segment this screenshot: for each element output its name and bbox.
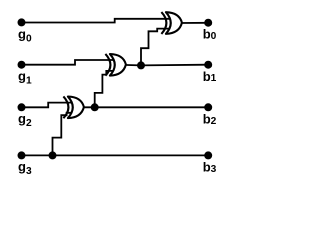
wire U2 output to b1 [125, 64, 209, 67]
terminal dot b3 [204, 151, 212, 159]
svg-text:g1: g1 [18, 69, 32, 87]
wire staircase from node g3 to XOR U3 lower input [53, 113, 72, 156]
svg-text:g2: g2 [18, 111, 32, 129]
terminal dot g0 [18, 18, 26, 26]
svg-text:g0: g0 [18, 26, 32, 44]
wire g3 to b3 horizontal [21, 154, 209, 156]
svg-text:b2: b2 [203, 111, 217, 126]
xor gate U2 (b1 = g1 xor b2) [105, 54, 126, 76]
wire staircase from node b2 to XOR U2 lower input [95, 71, 114, 107]
terminal dot b0 [204, 19, 212, 27]
terminal dot g3 [18, 151, 26, 159]
svg-text:b0: b0 [203, 27, 217, 42]
wire g2 input with jog to XOR U3 upper input [21, 103, 72, 108]
junction node on b2 line [91, 103, 99, 111]
svg-text:b3: b3 [203, 160, 217, 175]
wire g0 input with jog to XOR U1 upper input [21, 19, 170, 23]
terminal dot g2 [18, 103, 26, 111]
terminal dot g1 [18, 61, 26, 69]
xor gate U1 (b0 = g0 xor b1) [161, 12, 182, 34]
wire U1 output to b0 [180, 22, 208, 24]
junction node on b1 line [137, 61, 145, 69]
xor gate U3 (b2 = g2 xor b3) [63, 96, 84, 118]
terminal dot b2 [204, 103, 212, 111]
terminal dot b1 [204, 61, 212, 69]
junction node on g3 line [49, 151, 57, 159]
svg-text:g3: g3 [18, 159, 32, 177]
wire U3 output to b2 [83, 106, 208, 108]
svg-text:b1: b1 [203, 69, 217, 84]
wire g1 input with jog to XOR U2 upper input [21, 60, 114, 65]
wire staircase from node b1 to XOR U1 lower input [141, 29, 170, 66]
